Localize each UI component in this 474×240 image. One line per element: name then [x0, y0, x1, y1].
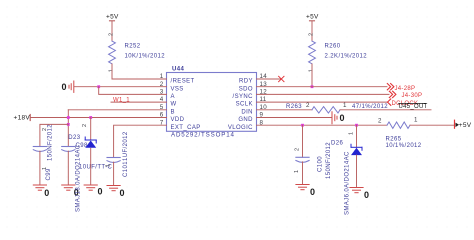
wire R265 to +5V port: [410, 124, 454, 126]
ground 0 under C100: [296, 185, 309, 190]
junction rail/D26: [355, 124, 358, 127]
svg-text:W: W: [171, 102, 177, 108]
svg-text:10K/1%/2012: 10K/1%/2012: [125, 54, 166, 60]
resistor R263: [312, 107, 340, 113]
wire C101 to ground: [113, 162, 115, 185]
ground 0 at VSS (sideways): [69, 81, 74, 92]
wire C99 to ground: [39, 151, 41, 185]
svg-text:RDY: RDY: [239, 79, 253, 85]
diode D26 TVS: [351, 144, 362, 150]
svg-text:2: 2: [309, 33, 315, 36]
junction on VSS wire: [97, 85, 100, 88]
svg-text:2: 2: [378, 118, 382, 125]
svg-text:GND: GND: [238, 117, 253, 123]
svg-text:+5V: +5V: [106, 14, 119, 21]
off-page port +5V: [454, 120, 456, 128]
svg-text:D23: D23: [68, 135, 80, 141]
wire B riser to pin 5 (continues down to C98): [68, 109, 166, 111]
svg-text:2.2K/1%/2012: 2.2K/1%/2012: [325, 54, 368, 60]
svg-text:0: 0: [62, 82, 67, 92]
svg-text:10/1%/2012: 10/1%/2012: [386, 143, 422, 149]
svg-text:1: 1: [106, 164, 112, 167]
svg-text:SMAJ18.0A/DO214AC: SMAJ18.0A/DO214AC: [76, 144, 82, 212]
svg-text:2: 2: [295, 148, 301, 151]
svg-text:B: B: [171, 109, 175, 115]
junction rail/C100: [301, 124, 304, 127]
svg-text:0: 0: [98, 187, 103, 197]
svg-text:150NF/2012: 150NF/2012: [326, 142, 332, 179]
svg-text:SDO: SDO: [239, 86, 253, 92]
wire rail down to D26: [356, 125, 358, 147]
power symbol +18V: [29, 115, 31, 121]
ground 0 under D26: [350, 188, 363, 193]
svg-text:47/1%/2012: 47/1%/2012: [352, 104, 388, 110]
wire GND pin 9 to ground stub: [257, 117, 332, 119]
svg-text:1UF/2012: 1UF/2012: [123, 131, 129, 161]
svg-text:D26: D26: [331, 141, 343, 147]
wire +5V to R260: [311, 21, 313, 41]
svg-text:1: 1: [414, 117, 418, 124]
wire +18V rail to VDD pin 6: [31, 117, 167, 119]
power symbol +5V (right): [310, 20, 315, 22]
svg-text:R252: R252: [125, 44, 141, 50]
svg-text:0: 0: [120, 188, 125, 198]
wire junction down to pin 3 A: [99, 87, 167, 95]
svg-text:U45_OUT: U45_OUT: [399, 104, 428, 110]
wire C98 to ground: [67, 151, 69, 185]
ground 0 at GND (sideways right): [332, 112, 337, 124]
wire D23 to ground: [90, 148, 92, 185]
capacitor C101: [107, 158, 120, 163]
op-amp U44 digital potentiometer box: [167, 73, 257, 132]
svg-text:R260: R260: [325, 44, 341, 50]
wire EXT_CAP pin 7 to C101: [114, 125, 167, 157]
svg-text:2: 2: [306, 102, 310, 109]
wire R260 down to SDO: [311, 64, 313, 87]
svg-text:2: 2: [42, 128, 48, 131]
svg-text:DIN: DIN: [241, 109, 253, 115]
ground 0 under C98: [62, 185, 75, 190]
svg-text:VDD: VDD: [171, 117, 185, 123]
svg-text:1: 1: [343, 102, 347, 109]
wire D26 to ground: [356, 155, 358, 187]
svg-text:/RESET: /RESET: [171, 79, 195, 85]
wire R263 to U45_OUT net: [340, 109, 431, 111]
no-connect X on RDY: [279, 76, 284, 81]
junction R260/SDO: [311, 85, 314, 88]
wire C100 to ground: [302, 162, 304, 185]
svg-text:EXT_CAP: EXT_CAP: [171, 125, 201, 131]
port J4-30P: [389, 91, 396, 97]
svg-text:A: A: [171, 94, 175, 100]
wire +5V to R252: [111, 21, 113, 41]
wire R252 to pin 1: [112, 64, 167, 79]
svg-text:1: 1: [349, 132, 355, 135]
diode D23 TVS: [85, 137, 96, 143]
wire W net to pin 4: [111, 101, 167, 103]
capacitor C100: [296, 157, 309, 162]
port J4-28P: [387, 84, 394, 90]
port DCLOCK: [388, 99, 391, 105]
wire rail down to C100: [302, 125, 304, 157]
resistor R265: [387, 122, 410, 128]
svg-text:0: 0: [364, 190, 369, 200]
junction C99 jog/riser: [67, 123, 70, 126]
svg-text:SMAJ6.0A/DO214AC: SMAJ6.0A/DO214AC: [345, 151, 351, 215]
svg-text:U44: U44: [172, 67, 184, 73]
ground 0 under D23: [84, 185, 97, 190]
wire VLOGIC pin 8 rail: [257, 124, 388, 126]
wire SDO pin 13 to port: [257, 86, 388, 88]
wire RDY stub pin 14: [257, 78, 281, 80]
resistor R252: [109, 41, 116, 64]
svg-text:SCLK: SCLK: [236, 102, 253, 108]
svg-text:1: 1: [42, 167, 48, 170]
svg-text:C101: C101: [123, 161, 129, 177]
svg-text:C100: C100: [318, 156, 324, 172]
wire rail down to D23: [90, 118, 92, 141]
svg-text:0: 0: [340, 113, 345, 123]
svg-text:VSS: VSS: [171, 86, 184, 92]
svg-text:+18V: +18V: [14, 115, 31, 122]
svg-text:150NF/2012: 150NF/2012: [48, 124, 54, 161]
svg-text:0: 0: [44, 188, 49, 198]
svg-text:VLOGIC: VLOGIC: [228, 125, 253, 131]
wire jog to C99: [40, 124, 68, 146]
svg-text:+5V: +5V: [306, 14, 319, 21]
svg-text:2: 2: [109, 33, 115, 36]
capacitor C98: [62, 147, 75, 152]
svg-text:2: 2: [82, 124, 88, 127]
svg-text:1: 1: [294, 170, 300, 173]
svg-text:R263: R263: [286, 104, 302, 110]
svg-text:R265: R265: [386, 137, 402, 143]
wire SCLK pin 11 to port: [257, 101, 388, 103]
svg-text:J4-30P: J4-30P: [402, 93, 423, 99]
svg-text:J4-28P: J4-28P: [395, 86, 416, 92]
junction rail/D23: [89, 116, 92, 119]
wire VSS ground to pin 2: [74, 86, 166, 88]
ground 0 under C101: [107, 186, 120, 191]
resistor R260: [309, 41, 316, 64]
wire /SYNC pin 12 to port: [257, 93, 390, 95]
svg-text:AD5292/TSSOP14: AD5292/TSSOP14: [171, 131, 235, 138]
svg-text:/SYNC: /SYNC: [233, 94, 254, 100]
ground 0 under C99: [33, 185, 46, 190]
wire DIN pin 10 to R263: [257, 109, 313, 111]
power symbol +5V (left): [110, 20, 115, 22]
junction rail/B riser: [67, 116, 70, 119]
svg-text:0: 0: [310, 187, 315, 197]
capacitor C99: [33, 147, 46, 152]
svg-text:+5V: +5V: [459, 122, 472, 129]
